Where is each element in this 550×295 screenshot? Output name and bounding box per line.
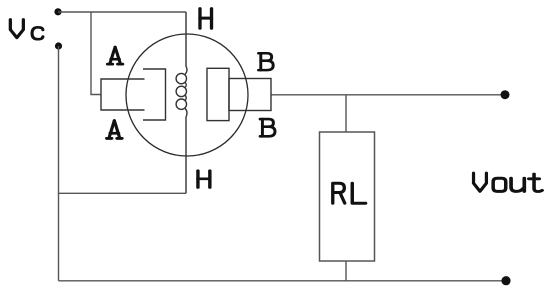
label H bottom — [198, 171, 210, 188]
label A bottom — [107, 121, 122, 139]
terminal dot Vout- — [501, 276, 510, 285]
wire bottom rail — [59, 280, 507, 282]
wire heater bottom horizontal — [59, 192, 187, 194]
terminal dot Vc+ — [54, 8, 61, 15]
label Vout — [474, 173, 543, 191]
resistor RL body — [320, 132, 375, 261]
electrode B plate — [207, 68, 229, 120]
label RL — [333, 183, 366, 203]
electrode A plate bracket — [143, 69, 166, 120]
sensor body circle — [126, 34, 248, 156]
wire output B to Vout — [271, 94, 505, 96]
heater H lead and coil — [176, 12, 187, 193]
terminal dot Vc- — [55, 42, 62, 49]
electrode B pin box — [229, 79, 271, 111]
label B bottom — [260, 119, 275, 136]
label H top — [200, 9, 212, 29]
wire branch down to A pin — [91, 12, 101, 95]
label Vc — [10, 20, 43, 40]
wire RL bottom lead — [345, 261, 347, 281]
electrode A pin connector — [101, 79, 145, 110]
wire Vc- vertical down — [58, 46, 60, 281]
label A top — [108, 47, 123, 64]
label B top — [258, 53, 273, 70]
terminal dot Vout+ — [501, 90, 510, 99]
wire RL top lead — [345, 95, 347, 132]
wire top rail Vc+ to H — [58, 11, 186, 13]
